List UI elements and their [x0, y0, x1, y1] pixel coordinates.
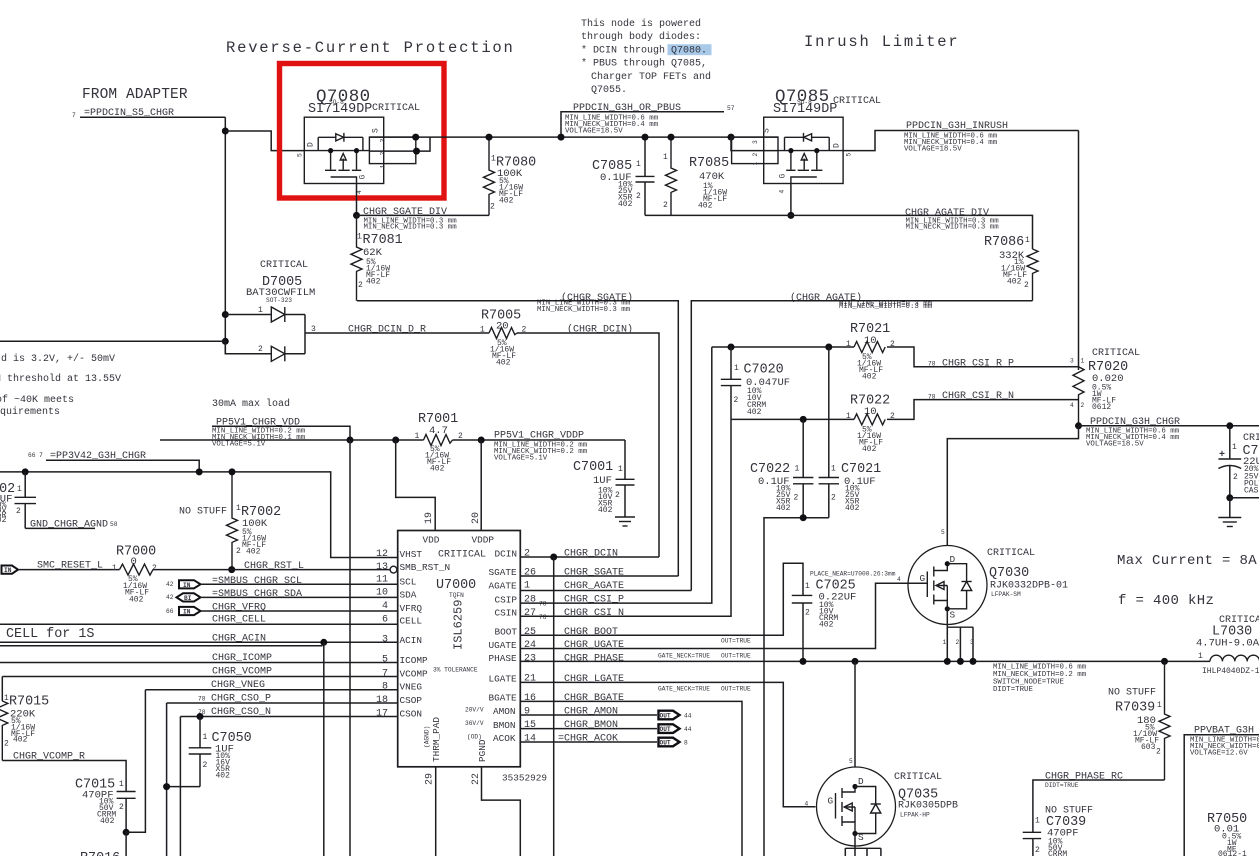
svg-text:78: 78 — [198, 696, 206, 703]
node c7022 pin1 — [800, 416, 807, 423]
wire Q7080 source row B out merge — [369, 136, 416, 138]
svg-text:AGATE: AGATE — [489, 580, 518, 591]
svg-text:1: 1 — [1025, 236, 1030, 245]
svg-text:CHGR_LGATE: CHGR_LGATE — [564, 674, 624, 685]
svg-text:1: 1 — [752, 162, 759, 166]
svg-text:C7022: C7022 — [750, 462, 790, 477]
svg-text:S: S — [858, 832, 864, 843]
node phase q7030 s2 — [957, 658, 964, 665]
node c7015 bottom vneg — [123, 829, 130, 836]
svg-text:RJK0305DPB: RJK0305DPB — [898, 801, 958, 812]
node c7020 pin1 — [728, 344, 735, 351]
svg-text:20V/V: 20V/V — [465, 707, 484, 714]
svg-text:Reverse-Current Protection: Reverse-Current Protection — [226, 39, 515, 57]
svg-text:OUT: OUT — [660, 713, 671, 720]
svg-text:25: 25 — [524, 627, 536, 638]
svg-text:PP5V1_CHGR_VDDP: PP5V1_CHGR_VDDP — [494, 431, 584, 442]
svg-text:CSON: CSON — [400, 708, 423, 719]
node dcin junction — [550, 554, 557, 561]
svg-text:27: 27 — [524, 608, 536, 619]
capacitor C7085 — [592, 137, 655, 215]
wire SGATE pin26 — [520, 575, 678, 577]
svg-text:2: 2 — [956, 639, 960, 646]
svg-text:57: 57 — [727, 105, 735, 112]
note: this node is powered text block — [581, 18, 712, 96]
svg-text:402: 402 — [13, 736, 28, 745]
transistor Q7080 body — [297, 117, 416, 194]
wire DCIN pin2 — [520, 556, 659, 558]
svg-text:44: 44 — [684, 713, 692, 720]
svg-text:CHGR_CSI_N: CHGR_CSI_N — [564, 608, 624, 619]
svg-text:1: 1 — [846, 340, 851, 349]
svg-text:CELL: CELL — [400, 616, 423, 627]
svg-text:4: 4 — [805, 801, 809, 808]
svg-text:3: 3 — [752, 140, 759, 144]
node c7040 bottom — [1226, 494, 1233, 501]
svg-text:CRITICAL: CRITICAL — [372, 103, 420, 114]
wire (CHGR_SGATE) — [357, 301, 678, 576]
svg-text:2: 2 — [636, 192, 641, 201]
svg-text:0612-1: 0612-1 — [1218, 850, 1247, 856]
svg-text:PHASE: PHASE — [489, 653, 518, 664]
svg-text:DCIN: DCIN — [495, 549, 518, 560]
wire vcomp — [2, 676, 397, 678]
svg-text:402: 402 — [1007, 278, 1022, 287]
wire CHGR_AGATE_DIV — [645, 215, 1033, 249]
svg-text:CHGR_AMON: CHGR_AMON — [564, 707, 618, 718]
svg-text:66 7: 66 7 — [28, 452, 43, 459]
resistor R7039 — [1115, 661, 1170, 780]
node ppdcin chgr junction — [1075, 422, 1082, 429]
wire csi r p jog — [887, 347, 1079, 367]
svg-text:2: 2 — [4, 740, 9, 749]
svg-text:8: 8 — [684, 740, 688, 747]
svg-text:BMON: BMON — [493, 720, 516, 731]
svg-text:VCOMP: VCOMP — [400, 668, 429, 679]
wire cso p — [167, 702, 398, 704]
wire CSIN bottom row — [731, 418, 854, 420]
svg-text:SI7149DP: SI7149DP — [308, 102, 372, 117]
svg-text:SDA: SDA — [400, 590, 417, 601]
svg-text:14: 14 — [524, 734, 536, 745]
svg-text:2: 2 — [831, 494, 836, 503]
svg-text:1: 1 — [663, 153, 668, 162]
svg-text:S: S — [763, 128, 772, 133]
svg-text:MIN_NECK_WIDTH=0.3 mm: MIN_NECK_WIDTH=0.3 mm — [906, 224, 1000, 232]
svg-text:R7016: R7016 — [80, 851, 120, 856]
svg-text:LGATE: LGATE — [489, 674, 518, 685]
svg-text:1: 1 — [415, 432, 420, 441]
svg-text:CHGR_RST_L: CHGR_RST_L — [244, 561, 304, 572]
flag IN SMC_RESET_L — [2, 566, 19, 575]
svg-text:2: 2 — [615, 491, 620, 500]
svg-text:Q7055.: Q7055. — [591, 85, 627, 96]
wire c7050 to cso p — [167, 786, 200, 788]
svg-text:20: 20 — [471, 512, 482, 524]
svg-text:LFPAK-SM: LFPAK-SM — [991, 591, 1021, 598]
svg-text:0612: 0612 — [1092, 403, 1111, 412]
svg-text:402: 402 — [216, 772, 231, 781]
svg-text:78: 78 — [539, 614, 547, 621]
svg-text:(OD): (OD) — [467, 734, 482, 741]
svg-text:1: 1 — [380, 165, 387, 169]
svg-text:VOLTAGE=18.5V: VOLTAGE=18.5V — [1086, 441, 1144, 449]
svg-text:2: 2 — [490, 203, 495, 212]
svg-text:4: 4 — [1070, 402, 1074, 409]
wire CHGR_SGATE_DIV — [357, 214, 490, 216]
wire vneg — [145, 689, 397, 691]
svg-text:12: 12 — [376, 549, 388, 560]
node pp3v42 stub — [196, 468, 203, 475]
diode D7005 bottom — [225, 341, 305, 361]
wire csi r n jog — [887, 400, 1079, 420]
node R7085 top — [668, 134, 675, 141]
svg-text:17: 17 — [376, 708, 388, 719]
svg-text:d is 3.2V, +/- 50mV: d is 3.2V, +/- 50mV — [1, 353, 115, 365]
svg-text:2: 2 — [663, 201, 668, 210]
capacitor C7039 — [1023, 815, 1086, 856]
node R7080 top — [486, 134, 493, 141]
node D7005 pin1 junction — [222, 311, 229, 318]
svg-text:26: 26 — [524, 568, 536, 579]
flag IN SCL — [166, 580, 201, 589]
svg-text:CASE-C: CASE-C — [1244, 487, 1259, 496]
svg-text:4: 4 — [382, 601, 388, 612]
resistor R7021 — [846, 322, 895, 382]
svg-text:CHGR_SGATE_DIV: CHGR_SGATE_DIV — [363, 207, 447, 218]
capacitor C7050 — [189, 717, 252, 787]
svg-text:78: 78 — [928, 393, 936, 400]
svg-text:AMON: AMON — [493, 706, 516, 717]
svg-text:13: 13 — [376, 562, 388, 573]
wire sda — [201, 596, 398, 598]
node acin junction — [320, 639, 327, 646]
svg-text:VOLTAGE=5.1V: VOLTAGE=5.1V — [212, 441, 266, 449]
svg-text:D: D — [833, 143, 842, 148]
svg-text:CRITICAL: CRITICAL — [1243, 433, 1259, 444]
node adapter junction — [222, 128, 229, 135]
wire adapter vertical drop — [224, 117, 226, 354]
svg-text:Max Current = 8A: Max Current = 8A — [1117, 553, 1257, 569]
svg-text:402: 402 — [776, 504, 791, 513]
wire CSIN pin27 — [520, 419, 731, 616]
wire VDD pin 19 — [396, 440, 436, 531]
svg-text:30mA max load: 30mA max load — [212, 398, 290, 410]
svg-text:DIDT=TRUE: DIDT=TRUE — [1045, 782, 1079, 789]
svg-text:CHGR_CSI_R_P: CHGR_CSI_R_P — [942, 358, 1014, 369]
node D7005 pin2 junction — [222, 338, 229, 345]
node Q7080 out A — [412, 134, 419, 141]
svg-text:402: 402 — [618, 200, 633, 209]
wire PHASE pin23 — [520, 660, 1210, 662]
svg-text:4: 4 — [897, 576, 901, 583]
svg-text:22: 22 — [471, 773, 482, 785]
svg-text:36V/V: 36V/V — [465, 720, 484, 727]
resistor R7022 — [846, 394, 895, 455]
wire ppvbat — [1184, 735, 1259, 856]
svg-text:VDDP: VDDP — [472, 535, 495, 546]
svg-text:1: 1 — [734, 364, 739, 373]
svg-text:5: 5 — [297, 153, 304, 157]
svg-text:CSOP: CSOP — [400, 695, 423, 706]
svg-text:f = 400 kHz: f = 400 kHz — [1118, 593, 1214, 609]
svg-text:3: 3 — [1070, 358, 1074, 365]
attr text switch node — [993, 664, 1087, 695]
svg-text:IN: IN — [4, 567, 12, 574]
svg-text:2: 2 — [380, 152, 387, 156]
svg-text:2: 2 — [794, 494, 799, 503]
node c7002 top — [22, 468, 29, 475]
svg-text:CRITICAL: CRITICAL — [987, 548, 1035, 559]
wire pp3v42 label stub — [46, 460, 199, 472]
svg-text:4: 4 — [779, 190, 786, 194]
svg-text:CHGR_BOOT: CHGR_BOOT — [564, 627, 618, 638]
svg-text:1: 1 — [795, 465, 800, 474]
wire jog to Q7080 source — [225, 131, 304, 151]
svg-text:9: 9 — [524, 707, 530, 718]
svg-text:R7039: R7039 — [1115, 701, 1155, 716]
svg-text:equirements: equirements — [0, 406, 60, 418]
highlight red box around Q7080 — [280, 64, 445, 199]
svg-text:NO STUFF: NO STUFF — [1108, 688, 1156, 699]
svg-text:1: 1 — [357, 233, 362, 242]
svg-text:402: 402 — [496, 359, 511, 368]
svg-text:CSIP: CSIP — [495, 594, 518, 605]
svg-text:402: 402 — [246, 548, 261, 557]
svg-text:CRITICAL: CRITICAL — [260, 260, 308, 271]
node c7022 bottom — [800, 514, 807, 521]
wire gnd agnd stub — [25, 527, 95, 529]
wire FROM ADAPTER main — [0, 340, 225, 342]
resistor R7081 — [351, 215, 403, 300]
svg-text:=SMBUS_CHGR_SCL: =SMBUS_CHGR_SCL — [212, 576, 302, 587]
svg-text:1: 1 — [203, 733, 208, 742]
wire Q7080 gate drop — [356, 184, 358, 216]
wire CSIP pin28 — [520, 347, 712, 603]
node Q7085 branch — [728, 134, 735, 141]
resistor R7002 — [179, 472, 281, 570]
svg-text:SCL: SCL — [400, 577, 417, 588]
svg-text:CHGR_BGATE: CHGR_BGATE — [564, 693, 624, 704]
svg-text:VNEG: VNEG — [400, 682, 423, 693]
capacitor C7022 — [750, 419, 813, 517]
svg-text:D: D — [307, 142, 316, 147]
wire THRM pad pin29 — [435, 767, 437, 856]
IC U7000 box — [398, 531, 521, 767]
svg-text:1: 1 — [17, 485, 22, 494]
svg-text:G: G — [828, 796, 834, 807]
capacitor C7020 — [721, 347, 790, 419]
svg-text:2: 2 — [1024, 281, 1029, 290]
svg-text:7: 7 — [72, 112, 76, 119]
svg-text:CHGR_BMON: CHGR_BMON — [564, 720, 618, 731]
flag BI SDA — [166, 593, 201, 602]
svg-text:3: 3 — [970, 639, 974, 646]
wire BMON pin15 — [520, 728, 657, 730]
svg-text:OUT: OUT — [660, 740, 671, 747]
flag OUT bmon — [659, 724, 692, 733]
node cso p c7050 — [163, 783, 170, 790]
svg-text:2: 2 — [1081, 402, 1085, 409]
wire cso n — [180, 716, 397, 718]
svg-text:* PBUS through Q7085,: * PBUS through Q7085, — [581, 58, 707, 70]
svg-text:(AGND): (AGND) — [424, 726, 431, 748]
svg-text:18: 18 — [376, 695, 388, 706]
svg-text:SI7149DP: SI7149DP — [773, 102, 837, 117]
node phase q7030 s3 — [970, 658, 977, 665]
svg-text:42: 42 — [166, 581, 174, 588]
svg-text:CHGR_CSI_P: CHGR_CSI_P — [564, 595, 624, 606]
resistor R7001 — [415, 412, 464, 474]
svg-text:402: 402 — [698, 202, 713, 211]
svg-text:3% TOLERANCE: 3% TOLERANCE — [433, 667, 478, 674]
wire D7005 output bar — [304, 315, 306, 354]
svg-text:3: 3 — [382, 635, 388, 646]
wire CHGR_PHASE_RC — [1033, 780, 1165, 832]
svg-text:U7000: U7000 — [436, 578, 476, 593]
svg-text:CHGR_PHASE_RC: CHGR_PHASE_RC — [1045, 772, 1123, 783]
wire BOOT pin25 — [520, 563, 803, 635]
wire smc reset — [18, 569, 120, 571]
wire dcin down — [553, 557, 555, 856]
svg-text:1: 1 — [480, 326, 485, 335]
svg-text:CRITICAL: CRITICAL — [833, 96, 881, 107]
svg-text:VOLTAGE=18.5V: VOLTAGE=18.5V — [904, 146, 962, 154]
svg-text:IN: IN — [183, 582, 191, 589]
node c7040 top — [1226, 422, 1233, 429]
svg-text:402: 402 — [845, 504, 860, 513]
svg-text:CHGR_PHASE: CHGR_PHASE — [564, 653, 624, 664]
wire Q7085 branch drop — [731, 137, 778, 151]
node vdd pin branch — [392, 437, 399, 444]
svg-text:2: 2 — [1156, 748, 1161, 757]
svg-text:PPDCIN_G3H_INRUSH: PPDCIN_G3H_INRUSH — [906, 121, 1008, 132]
svg-text:2: 2 — [203, 761, 208, 770]
wire ppdcin chgr — [1079, 425, 1259, 427]
wire (CHGR_DCIN) — [517, 333, 659, 557]
svg-text:D: D — [858, 776, 864, 787]
node r7002 top — [229, 468, 236, 475]
svg-text:GATE_NECK=TRUE: GATE_NECK=TRUE — [658, 653, 710, 660]
resistor R7000 — [112, 545, 157, 605]
svg-text:402: 402 — [100, 817, 115, 826]
svg-text:(CHGR_DCIN): (CHGR_DCIN) — [567, 324, 633, 336]
svg-text:2: 2 — [805, 609, 810, 618]
svg-text:402: 402 — [0, 516, 7, 525]
svg-text:19: 19 — [424, 512, 435, 524]
svg-text:2: 2 — [734, 396, 739, 405]
capacitor C7025 — [792, 571, 896, 662]
svg-text:CRRM: CRRM — [1048, 850, 1067, 856]
svg-text:SGATE: SGATE — [489, 567, 518, 578]
svg-text:through body diodes:: through body diodes: — [581, 31, 701, 43]
svg-text:402: 402 — [129, 596, 144, 605]
resistor R7050 label — [1207, 812, 1247, 856]
svg-text:THRM_PAD: THRM_PAD — [431, 717, 442, 762]
wire acin — [0, 641, 398, 643]
wire LGATE pin21 — [520, 682, 815, 806]
svg-text:This node is powered: This node is powered — [581, 18, 701, 30]
svg-text:1: 1 — [1198, 652, 1203, 661]
svg-text:402: 402 — [430, 465, 445, 474]
wire PPDCIN label stub — [561, 112, 724, 137]
wire Q7085 drain to inrush — [843, 131, 1079, 151]
wire AGATE pin1 — [520, 590, 691, 592]
svg-text:2: 2 — [119, 803, 124, 812]
node C7085 top — [642, 134, 649, 141]
wire cell — [0, 623, 398, 625]
wire c7021 c7022 gnd — [764, 518, 829, 856]
svg-text:24: 24 — [524, 640, 536, 651]
svg-text:BI: BI — [184, 595, 192, 602]
svg-text:of ~40K meets: of ~40K meets — [0, 394, 74, 406]
resistor R7020 — [1070, 348, 1140, 426]
wire BGATE pin16 — [520, 701, 742, 856]
node gate div junction — [353, 212, 360, 219]
wire acin down — [323, 642, 325, 856]
wire cso p down — [166, 703, 168, 856]
wire =PPDCIN_S5_CHGR horizontal — [80, 116, 225, 118]
svg-text:1: 1 — [119, 780, 124, 789]
svg-text:2: 2 — [1233, 473, 1238, 482]
svg-text:R7015: R7015 — [9, 695, 49, 710]
resistor R7085 — [663, 137, 729, 215]
flag OUT amon — [659, 711, 692, 720]
node Q7080 out B — [413, 148, 420, 155]
wire q7035 drain drop — [854, 661, 856, 767]
svg-text:CHGR_DCIN_D_R: CHGR_DCIN_D_R — [348, 325, 426, 336]
svg-text:58: 58 — [110, 521, 118, 528]
svg-text:R7085: R7085 — [689, 156, 729, 171]
svg-text:5: 5 — [941, 529, 945, 536]
svg-text:402: 402 — [819, 621, 834, 630]
wire icomp — [0, 662, 398, 664]
svg-text:R7086: R7086 — [984, 235, 1024, 250]
svg-text:=SMBUS_CHGR_SDA: =SMBUS_CHGR_SDA — [212, 589, 302, 600]
transistor Q7085 body — [732, 117, 853, 193]
svg-text:UGATE: UGATE — [489, 640, 518, 651]
svg-text:NO STUFF: NO STUFF — [179, 507, 227, 518]
svg-text:* DCIN through Q7080.: * DCIN through Q7080. — [581, 44, 707, 56]
svg-text:23: 23 — [524, 654, 536, 665]
svg-text:78: 78 — [539, 601, 547, 608]
svg-text:1: 1 — [1232, 443, 1237, 452]
svg-text:LFPAK-HP: LFPAK-HP — [900, 812, 930, 819]
svg-text:78: 78 — [928, 361, 936, 368]
svg-text:402: 402 — [862, 373, 877, 382]
svg-text:G: G — [359, 175, 368, 180]
svg-text:1UF: 1UF — [593, 475, 612, 487]
svg-text:2: 2 — [152, 564, 157, 573]
svg-text:2: 2 — [16, 507, 21, 516]
wire UGATE pin24 — [520, 583, 927, 648]
svg-text:603: 603 — [1141, 743, 1156, 752]
wire cso n down — [179, 717, 181, 856]
node vddp junction — [478, 437, 485, 444]
svg-text:402: 402 — [747, 408, 762, 417]
wire inrush vertical — [1078, 131, 1080, 371]
transistor Q7035 — [805, 758, 896, 856]
svg-text:MIN_NECK_WIDTH=0.3 mm: MIN_NECK_WIDTH=0.3 mm — [537, 306, 631, 314]
wire VDDP pin 20 — [480, 440, 482, 531]
svg-text:G: G — [920, 573, 926, 584]
svg-text:SMB_RST_N: SMB_RST_N — [400, 562, 451, 573]
svg-text:402: 402 — [862, 445, 877, 454]
wire PP5V1 label stub — [212, 426, 350, 440]
IC U7000 left pin numbers — [376, 549, 482, 785]
svg-text:OUT=TRUE: OUT=TRUE — [721, 686, 751, 693]
svg-text:C7001: C7001 — [573, 460, 613, 475]
